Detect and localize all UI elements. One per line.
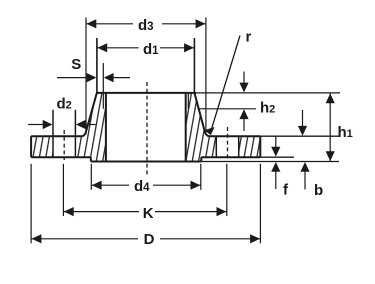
plate bottom face right with f extension: [201, 156, 260, 158]
svg-text:d4: d4: [134, 178, 150, 195]
dimension D line: [31, 238, 138, 240]
hub taper left with fillet: [83, 93, 97, 137]
radius leader r: [212, 36, 241, 130]
thread line left / S extension: [102, 63, 104, 109]
dimension K line: [63, 211, 139, 213]
svg-text:D: D: [144, 231, 155, 248]
hatch left outer plate section: [31, 136, 53, 157]
axis centerline: [146, 82, 148, 175]
svg-text:h1: h1: [338, 124, 353, 141]
svg-text:r: r: [246, 29, 252, 46]
svg-text:d3: d3: [138, 17, 154, 34]
bolt hole edge left-left / d2 extension: [52, 110, 54, 157]
svg-text:b: b: [314, 182, 323, 199]
neck outer face left / d1 extension: [96, 38, 98, 93]
plate outer edge right: [259, 136, 261, 157]
dimension f arrows: [275, 136, 277, 147]
plate bottom face left: [31, 156, 91, 158]
bore wall right: [185, 93, 187, 162]
dimension D extension lines: [30, 164, 32, 244]
dimension d4 arrows: [92, 181, 102, 190]
hatch left hub/plate section: [75, 93, 106, 162]
neck top face with h1/h2 extension line: [96, 92, 196, 94]
dimension d4 extension lines: [90, 164, 92, 190]
svg-text:K: K: [143, 205, 154, 222]
hatch right outer plate section: [239, 136, 261, 157]
plate top face right with b extension: [209, 135, 261, 137]
dimension d1 line: [97, 47, 139, 49]
bolt hole edge right-right: [238, 136, 240, 157]
thread line right: [187, 94, 189, 109]
dimension d3 extension lines: [85, 18, 87, 135]
dimension h2 lower line and arrow: [198, 108, 257, 110]
dimension d4 line: [91, 184, 129, 186]
dimension K arrows: [64, 207, 74, 216]
bolt hole centerline right: [227, 127, 229, 160]
raised face edge left: [90, 157, 92, 161]
dimension d3 line: [86, 23, 133, 25]
svg-text:h2: h2: [260, 100, 275, 117]
hub taper right with fillet r: [194, 93, 208, 137]
svg-text:d1: d1: [143, 41, 159, 58]
bolt hole edge left-right / d2 extension: [74, 110, 76, 157]
plate outer edge left: [30, 136, 32, 157]
svg-text:S: S: [71, 56, 81, 73]
dimension S arrows: [57, 77, 87, 79]
hatch right hub/plate section: [186, 93, 217, 162]
svg-text:f: f: [283, 181, 289, 198]
bolt hole edge right-left: [215, 136, 217, 157]
bore wall left: [105, 93, 107, 162]
raised face bottom with h1/b/f extension: [91, 161, 202, 163]
dimension d3 arrows: [87, 19, 97, 28]
raised face edge right: [200, 157, 202, 161]
dimension d1 arrows: [97, 43, 107, 52]
dimension D arrows: [32, 234, 42, 243]
svg-text:d2: d2: [57, 96, 72, 113]
bolt hole centerline left: [63, 130, 65, 160]
dimension h2 upper arrow: [243, 72, 245, 84]
neck outer face right / d1 extension: [193, 38, 195, 93]
dimension K extension lines: [62, 164, 64, 216]
dimension d2 line and arrows: [28, 124, 43, 126]
dimension b arrows: [302, 110, 304, 126]
plate top face left: [31, 135, 82, 137]
dimension h1 line and arrows: [329, 93, 331, 161]
